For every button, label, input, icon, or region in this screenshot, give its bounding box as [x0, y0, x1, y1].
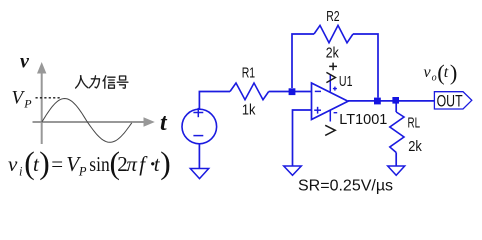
wire plus input to ground	[293, 110, 312, 166]
V+ plus sign	[329, 63, 337, 71]
ground under plus input	[284, 166, 302, 175]
op-amp V+ power stub	[329, 75, 331, 92]
wire RL to ground	[395, 153, 397, 167]
waveform plot axes	[33, 70, 147, 144]
resistor R2 body	[314, 25, 353, 42]
svg-text:): )	[450, 60, 457, 85]
svg-text:P: P	[78, 165, 87, 179]
resistor RL leads	[395, 104, 397, 113]
信	[103, 76, 106, 81]
op-amp U1 triangle	[312, 83, 349, 120]
svg-text:v: v	[424, 64, 432, 81]
op-amp minus input marker	[315, 90, 321, 92]
svg-text:f: f	[139, 152, 148, 176]
svg-text:v: v	[20, 51, 30, 73]
output wire	[348, 100, 434, 102]
label vo(t)	[424, 60, 458, 85]
svg-text:R1: R1	[242, 66, 255, 82]
svg-text:U1: U1	[339, 73, 353, 90]
svg-text:1k: 1k	[242, 103, 256, 119]
feedback wire right vertical	[353, 34, 378, 98]
svg-text:sin: sin	[89, 152, 110, 176]
ground under vsource	[190, 169, 208, 179]
junction node A square	[289, 88, 296, 95]
Vp dashed level line	[36, 97, 61, 99]
feedback wire left vertical	[292, 34, 314, 88]
v axis arrowhead	[37, 62, 46, 74]
t axis (horizontal)	[33, 121, 147, 123]
svg-text:SR=0.25V/µs: SR=0.25V/µs	[298, 178, 393, 195]
op-amp plus input marker	[314, 107, 321, 114]
svg-text:t: t	[160, 110, 168, 136]
op-amp V- power stub	[329, 110, 331, 122]
svg-text:RL: RL	[408, 115, 421, 131]
力	[91, 79, 99, 88]
resistor R1 body	[230, 83, 269, 100]
resistor RL body	[390, 112, 404, 153]
svg-text:OUT: OUT	[437, 92, 463, 111]
V- chevron	[325, 125, 335, 135]
wire R1 to node A	[269, 91, 312, 93]
svg-text:): )	[160, 145, 171, 180]
svg-text:2k: 2k	[326, 45, 340, 61]
svg-text:t: t	[444, 64, 449, 81]
svg-text:LT1001: LT1001	[339, 111, 387, 128]
sine waveform	[42, 99, 132, 143]
formula v_i(t)=V_P sin(2pi f t)	[8, 145, 171, 180]
v axis (vertical)	[41, 70, 43, 144]
svg-text:o: o	[432, 73, 437, 84]
svg-text:π: π	[126, 152, 137, 176]
junction node feedback/output square	[374, 98, 381, 105]
svg-text:): )	[39, 145, 50, 180]
OUT flag outline	[434, 92, 471, 109]
vsource minus	[193, 135, 203, 137]
svg-text:2k: 2k	[408, 139, 422, 155]
junction node RL square	[392, 97, 399, 104]
svg-text:v: v	[8, 152, 18, 176]
voltage source V1 circle	[182, 109, 217, 144]
ground under RL	[388, 166, 405, 175]
svg-text:=: =	[51, 152, 63, 176]
vsource plus	[193, 108, 203, 136]
annotation 入力信号 (drawn strokes)	[76, 76, 128, 88]
V- pin minus marker (blue)	[334, 112, 338, 114]
t axis arrowhead	[144, 117, 155, 126]
svg-text:P: P	[23, 97, 32, 111]
号	[120, 76, 126, 80]
wire vsource top to R1	[199, 92, 230, 110]
svg-text:i: i	[19, 165, 23, 179]
wire vsource bottom to ground	[198, 144, 200, 169]
svg-text:R2: R2	[326, 9, 339, 25]
V+ pin plus marker (blue)	[333, 87, 337, 91]
入	[76, 76, 81, 88]
V+ chevron	[326, 72, 335, 82]
